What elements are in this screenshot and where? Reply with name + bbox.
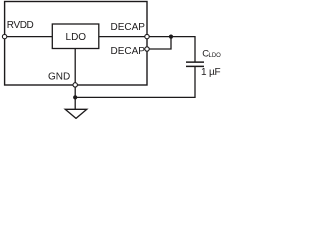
reference label CLDO [202, 48, 221, 59]
ground symbol [65, 109, 87, 118]
svg-text:GND: GND [48, 72, 70, 83]
pin GND node circle [73, 83, 77, 87]
wire RVDD pin to LDO input [5, 36, 53, 38]
regulator block LDO [52, 24, 99, 49]
svg-text:LDO: LDO [209, 53, 222, 59]
junction dot at DECAP tie point [169, 35, 173, 39]
wire LDO bottom to GND pin [74, 49, 76, 85]
svg-text:1 µF: 1 µF [201, 67, 221, 78]
wire DECAP top pin to capacitor top [147, 37, 195, 62]
IC boundary U1 [5, 2, 147, 86]
capacitor CLDO plates [186, 62, 204, 66]
wire GND pin down to ground symbol [74, 85, 76, 109]
wire DECAP bottom pin up to junction [147, 37, 171, 49]
wire capacitor bottom to ground net [75, 66, 195, 97]
pin RVDD node circle [2, 34, 6, 38]
junction dot on ground net [73, 95, 77, 99]
pin DECAP top node circle [145, 34, 149, 38]
svg-text:DECAP: DECAP [111, 46, 146, 57]
svg-text:RVDD: RVDD [7, 20, 34, 31]
svg-text:DECAP: DECAP [111, 22, 146, 33]
wire LDO output to DECAP pin [99, 36, 147, 38]
pin DECAP bottom node circle [145, 47, 149, 51]
svg-text:LDO: LDO [66, 32, 87, 43]
